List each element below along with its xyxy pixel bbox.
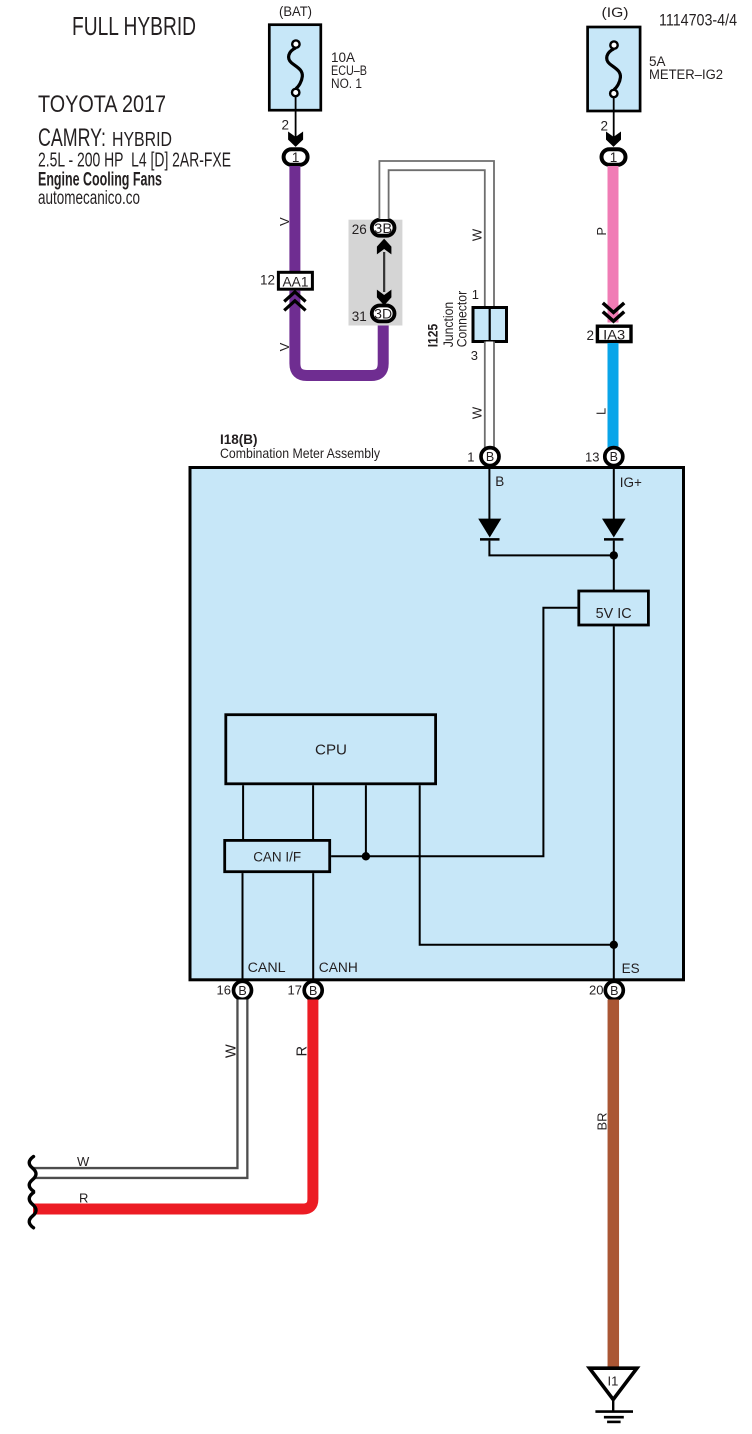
svg-text:3B: 3B <box>374 221 392 236</box>
wire CPU pin2 to CAN I/F <box>312 785 314 840</box>
diode D1 <box>478 519 501 538</box>
svg-text:METER–IG2: METER–IG2 <box>649 67 723 82</box>
wire BR brown pin 20 to ground <box>608 1000 620 1369</box>
svg-text:CAMRY:: CAMRY: <box>38 124 106 152</box>
svg-text:automecanico.co: automecanico.co <box>38 188 140 209</box>
wire W white from junction connector to pin 1B <box>484 342 495 450</box>
svg-text:B: B <box>610 984 618 998</box>
connector oval 3D <box>372 306 395 322</box>
svg-text:(BAT): (BAT) <box>279 3 312 19</box>
svg-text:W: W <box>223 1044 239 1058</box>
junction dot CAN node <box>362 852 370 860</box>
break squiggle W wire <box>29 1157 36 1192</box>
svg-text:TOYOTA 2017: TOYOTA 2017 <box>38 91 166 118</box>
svg-text:HYBRID: HYBRID <box>112 129 172 151</box>
connector oval 1 (BAT) <box>284 149 308 165</box>
svg-text:Combination Meter Assembly: Combination Meter Assembly <box>220 445 380 461</box>
CAN I/F box <box>225 840 330 871</box>
svg-text:5V IC: 5V IC <box>596 606 632 622</box>
svg-text:B: B <box>238 984 246 998</box>
svg-text:B: B <box>486 450 494 464</box>
node IG+ wire <box>613 466 615 519</box>
wire W white CANL to break <box>33 1000 242 1174</box>
svg-text:R: R <box>295 1046 311 1056</box>
connector oval 1 (IG) <box>602 149 626 165</box>
svg-text:20: 20 <box>589 983 603 998</box>
svg-text:BR: BR <box>595 1112 610 1130</box>
break squiggle R wire <box>29 1193 36 1228</box>
connector AA1 box <box>278 272 312 289</box>
svg-text:CANL: CANL <box>248 960 287 975</box>
arrow down into 3D <box>377 290 392 306</box>
svg-text:W: W <box>470 228 485 241</box>
junction dot ES <box>610 941 618 949</box>
svg-text:2: 2 <box>282 118 290 133</box>
svg-text:IG+: IG+ <box>620 475 642 490</box>
svg-text:AA1: AA1 <box>283 275 309 290</box>
wire D1 cathode to junction <box>489 541 613 556</box>
svg-text:B: B <box>309 984 317 998</box>
link wire between arrows <box>383 252 385 292</box>
regulator 5V IC box <box>579 591 649 625</box>
pin circle 13 B <box>605 448 623 466</box>
junction block shading <box>349 220 403 326</box>
fuse ECU-B symbol <box>289 40 303 96</box>
fuse ECU-B NO.1 box <box>269 25 321 111</box>
wire P pink from connector 1 to IA3 <box>608 166 619 323</box>
svg-text:Connector: Connector <box>455 290 470 347</box>
junction connector I125 <box>473 308 507 342</box>
svg-text:V: V <box>277 342 292 351</box>
svg-text:17: 17 <box>288 983 302 998</box>
svg-text:V: V <box>277 217 292 226</box>
svg-text:B: B <box>495 474 504 489</box>
svg-text:FULL HYBRID: FULL HYBRID <box>72 11 196 41</box>
node B wire <box>488 466 490 519</box>
wire ES from 5V IC to pin 20 <box>613 626 615 981</box>
svg-text:(IG): (IG) <box>602 4 629 20</box>
CPU box <box>226 715 436 784</box>
svg-text:1: 1 <box>467 449 474 464</box>
fuse METER-IG2 box <box>588 27 641 111</box>
diode D2 <box>602 519 626 538</box>
svg-text:L: L <box>594 408 609 415</box>
svg-text:1: 1 <box>472 287 479 302</box>
pin circle 1 B <box>481 448 499 466</box>
svg-text:R: R <box>79 1191 88 1206</box>
svg-text:CAN I/F: CAN I/F <box>253 849 301 864</box>
wire fuse to connector 1 (IG) <box>613 97 615 139</box>
wire CAN I/F to 5V IC <box>331 608 577 857</box>
arrow up into 3B <box>377 239 392 255</box>
arrow into connector (IG) <box>606 132 621 147</box>
wire CPU pin3 to CAN bus node <box>365 785 367 856</box>
wire D2 cathode to 5V IC <box>613 541 615 590</box>
svg-text:2: 2 <box>601 119 609 134</box>
wire V purple from connector 1 to AA1 <box>289 166 300 272</box>
svg-text:B: B <box>610 450 618 464</box>
connector AA1 chevrons <box>284 292 305 311</box>
wire CANH inside <box>312 873 314 981</box>
svg-text:26: 26 <box>352 222 367 237</box>
wire fuse to connector 1 <box>295 96 297 139</box>
svg-text:CPU: CPU <box>315 741 347 758</box>
fuse METER-IG2 symbol <box>607 41 621 97</box>
svg-text:I1: I1 <box>608 1374 619 1389</box>
wire R red CANH to break <box>33 1000 313 1210</box>
arrow into connector (BAT) <box>288 132 303 147</box>
svg-text:3D: 3D <box>374 307 392 322</box>
wire V purple from AA1 down right and up to 3D <box>295 291 383 376</box>
svg-text:1: 1 <box>292 150 300 165</box>
svg-text:W: W <box>77 1154 90 1169</box>
svg-text:31: 31 <box>352 309 367 324</box>
ground I1 <box>590 1368 637 1422</box>
svg-text:2: 2 <box>587 328 595 343</box>
wire W white from 3B up over to junction connector <box>384 166 489 307</box>
wire CANL inside <box>242 873 244 981</box>
svg-text:3: 3 <box>471 348 478 363</box>
combination meter assembly box <box>190 468 684 980</box>
svg-text:13: 13 <box>585 449 599 464</box>
svg-text:IA3: IA3 <box>603 328 625 343</box>
svg-text:P: P <box>594 227 609 236</box>
svg-text:NO. 1: NO. 1 <box>331 76 362 91</box>
svg-text:12: 12 <box>260 273 275 288</box>
wire CPU pin1 to CAN I/F <box>242 785 244 840</box>
svg-text:CANH: CANH <box>319 960 358 975</box>
svg-text:1: 1 <box>610 150 618 165</box>
connector oval 3B <box>372 220 395 236</box>
pin circle 20 B <box>605 981 623 999</box>
svg-text:I125: I125 <box>425 323 440 347</box>
svg-text:16: 16 <box>217 983 231 998</box>
pin circle 17 B <box>304 981 322 999</box>
wire L blue from IA3 to pin 13B <box>608 343 619 449</box>
svg-text:ES: ES <box>622 961 640 976</box>
junction dot diodes <box>610 551 618 559</box>
svg-text:1114703-4/4: 1114703-4/4 <box>659 11 737 30</box>
pin circle 16 B <box>234 981 252 999</box>
svg-text:W: W <box>470 406 485 419</box>
svg-text:2.5L - 200 HP L4 [D] 2AR-FXE: 2.5L - 200 HP L4 [D] 2AR-FXE <box>38 150 231 172</box>
connector IA3 box <box>597 326 631 341</box>
wire CPU pin4 to ES net <box>420 785 614 945</box>
connector IA3 chevrons <box>603 303 624 321</box>
